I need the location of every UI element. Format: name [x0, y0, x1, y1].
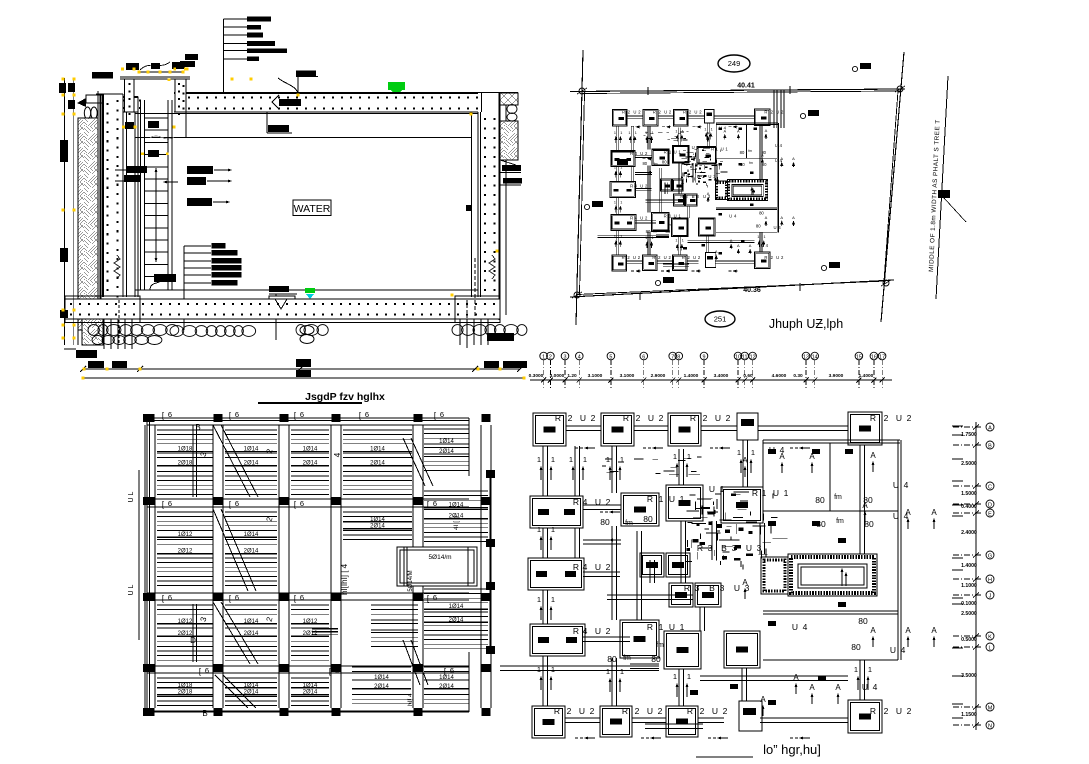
svg-text:6: 6 [433, 593, 437, 602]
svg-text:1Ø18: 1Ø18 [178, 446, 193, 452]
svg-text:2: 2 [606, 626, 611, 636]
ellipse 251 [705, 311, 735, 327]
svg-text:H: H [988, 578, 992, 584]
svg-text:1Ø14: 1Ø14 [303, 683, 318, 689]
grid bubble D [986, 500, 994, 508]
beam v e [678, 669, 680, 706]
svg-text:A: A [931, 626, 937, 635]
svg-text:K: K [988, 635, 992, 641]
svg-text:1: 1 [614, 235, 616, 239]
grid bubble 9 [700, 352, 708, 360]
grid bubble 5 [607, 352, 615, 360]
tank interior floor line [135, 289, 478, 291]
stones under slab [88, 325, 99, 336]
svg-text:U: U [664, 255, 667, 260]
beam m2 [656, 233, 669, 235]
right room walls [763, 439, 900, 441]
central dense cluster [602, 457, 788, 569]
footing dashed boundaries [118, 300, 120, 345]
svg-text:5: 5 [609, 355, 612, 361]
horizontal row gaps lines [147, 424, 469, 426]
entry path to street [773, 90, 775, 128]
svg-text:1: 1 [537, 525, 541, 534]
svg-text:2: 2 [549, 355, 552, 361]
street mid blob [938, 190, 950, 198]
svg-text:U: U [896, 706, 902, 716]
yellow grips at shaft [121, 68, 124, 71]
svg-text:U: U [648, 413, 654, 423]
svg-text:11: 11 [742, 355, 748, 361]
beam top c [688, 115, 704, 117]
column R3 row1 a [661, 179, 672, 191]
slab right border [489, 476, 491, 652]
svg-text:B: B [692, 194, 695, 199]
lid left part over wall [103, 97, 138, 112]
beam top d [714, 115, 755, 117]
svg-text:15: 15 [856, 355, 862, 361]
svg-text:1: 1 [682, 239, 684, 243]
svg-text:1: 1 [606, 667, 610, 676]
svg-text:R: R [687, 706, 693, 716]
corner ticks [577, 88, 587, 94]
boundary left edge [576, 50, 583, 325]
svg-text:R: R [870, 706, 876, 716]
svg-text:U: U [692, 145, 695, 150]
grid bubble M [986, 703, 994, 711]
svg-text:U: U [773, 488, 779, 498]
svg-text:3.1000: 3.1000 [588, 373, 603, 379]
svg-text:1: 1 [784, 488, 789, 498]
slab hatch panel [225, 430, 277, 494]
top middle column filled [737, 413, 758, 440]
svg-text:6: 6 [168, 410, 172, 419]
svg-text:7: 7 [671, 355, 674, 361]
beam v g [647, 166, 649, 213]
slab hatch panel [371, 605, 418, 646]
beam bottom c [687, 260, 699, 262]
svg-text:A: A [870, 626, 876, 635]
svg-text:80: 80 [651, 654, 661, 664]
beam v left2b [574, 528, 576, 558]
grid bubble 15 [855, 352, 863, 360]
beam above bottom-middle column [741, 668, 743, 701]
slab break V mark [275, 299, 287, 309]
svg-text:U: U [633, 109, 636, 114]
svg-text:1: 1 [711, 127, 713, 131]
rebar callout arrow right [187, 198, 212, 206]
svg-text:6: 6 [235, 593, 239, 602]
svg-text:1: 1 [551, 665, 555, 674]
svg-text:3: 3 [695, 583, 700, 593]
black squares at intersections [146, 414, 155, 422]
svg-text:0.3000: 0.3000 [529, 373, 544, 379]
svg-text:fm: fm [748, 149, 752, 153]
column R2 bottom-right [755, 252, 770, 268]
beam bottom a [565, 717, 600, 719]
svg-text:R: R [697, 543, 703, 553]
svg-text:3.4000: 3.4000 [714, 373, 729, 379]
svg-text:R: R [622, 706, 628, 716]
edge squares left [143, 414, 152, 422]
beam top b [658, 115, 673, 117]
svg-text:R: R [555, 413, 561, 423]
svg-text:2: 2 [591, 413, 596, 423]
svg-text:1.7500: 1.7500 [961, 432, 977, 438]
column R4 left wide-1 [611, 151, 635, 167]
svg-text:R: R [647, 622, 653, 632]
lid dots [179, 97, 496, 99]
svg-text:1: 1 [620, 235, 622, 239]
boundary bottom edge [570, 280, 894, 297]
svg-text:4: 4 [583, 562, 588, 572]
svg-text:80: 80 [666, 229, 671, 234]
svg-text:2: 2 [884, 706, 889, 716]
svg-text:1: 1 [720, 484, 725, 494]
beam v left3 [542, 590, 544, 624]
stair inner rect [732, 185, 763, 197]
svg-text:1: 1 [537, 455, 541, 464]
svg-text:U: U [580, 413, 586, 423]
svg-text:R: R [630, 151, 633, 156]
svg-text:1: 1 [537, 665, 541, 674]
svg-text:R: R [664, 150, 667, 155]
beam v a [611, 446, 613, 493]
svg-text:U: U [729, 213, 732, 218]
svg-text:1.4000: 1.4000 [859, 373, 874, 379]
boundary right edge [881, 52, 904, 322]
svg-text:A: A [905, 508, 911, 517]
site plan [570, 50, 966, 331]
rebar callout leftwall [126, 166, 147, 173]
svg-text:80: 80 [646, 229, 651, 234]
svg-text:U: U [694, 109, 697, 114]
svg-text:A: A [715, 249, 718, 254]
slab hatch panel [291, 678, 329, 706]
column R3 a [674, 194, 685, 206]
svg-text:1: 1 [659, 622, 664, 632]
svg-text:1: 1 [659, 494, 664, 504]
svg-text:2.5000: 2.5000 [961, 611, 977, 617]
beam v right [859, 445, 861, 554]
svg-text:U: U [746, 543, 752, 553]
column R4 left wide-3 [530, 624, 585, 656]
svg-text:U: U [664, 109, 667, 114]
svg-text:1.1500: 1.1500 [961, 712, 977, 718]
column B3 b [695, 583, 721, 607]
svg-text:2Ø18: 2Ø18 [178, 690, 193, 696]
beam lw2 [635, 188, 652, 190]
left dimension vertical lines [63, 78, 65, 345]
beam lw1 [635, 154, 652, 156]
svg-text:U: U [893, 480, 899, 490]
svg-text:U: U [775, 158, 778, 163]
column R2 bottom-2 [600, 706, 632, 737]
svg-text:A: A [723, 128, 726, 133]
svg-text:C: C [988, 485, 992, 491]
slab hatch panel [157, 678, 213, 706]
svg-text:U: U [893, 511, 899, 521]
svg-text:1: 1 [635, 131, 637, 135]
slab reinforcement plan [128, 410, 495, 718]
stair arrows [751, 191, 753, 196]
svg-text:B: B [697, 174, 700, 179]
bottom dim ticks [80, 366, 86, 372]
svg-text:U: U [640, 184, 643, 189]
left earth hatch strip [78, 118, 98, 330]
diagonal stair bands [213, 425, 250, 497]
svg-text:U: U [669, 494, 675, 504]
ladder center arrows [155, 172, 157, 205]
svg-text:17: 17 [879, 355, 885, 361]
column R2 top-3 [673, 109, 688, 125]
left retaining wall [103, 94, 123, 297]
svg-text:4: 4 [583, 626, 588, 636]
svg-text:fm: fm [836, 518, 844, 525]
grid bubble B [986, 441, 994, 449]
svg-text:A: A [742, 578, 748, 587]
svg-text:80: 80 [643, 514, 653, 524]
svg-text:2: 2 [907, 706, 912, 716]
svg-text:0.30: 0.30 [793, 373, 803, 379]
svg-text:2: 2 [606, 497, 611, 507]
svg-text:9: 9 [703, 355, 706, 361]
svg-text:1: 1 [675, 239, 677, 243]
svg-text:13: 13 [803, 355, 809, 361]
svg-text:2: 2 [590, 706, 595, 716]
svg-text:B: B [709, 583, 715, 593]
grid bubble 12 [749, 352, 757, 360]
svg-text:A: A [765, 128, 768, 133]
beam v d [647, 231, 649, 255]
svg-text:80: 80 [756, 223, 761, 228]
svg-text:U: U [579, 706, 585, 716]
beam mv1 [658, 168, 660, 212]
beam v a [647, 126, 649, 149]
svg-text:R: R [664, 213, 667, 218]
beam m5 [680, 521, 682, 583]
svg-text:0.60: 0.60 [743, 373, 753, 379]
svg-text:1Ø14: 1Ø14 [244, 446, 259, 452]
stair hatched border [788, 554, 877, 596]
svg-text:80: 80 [600, 517, 610, 527]
svg-text:16: 16 [871, 355, 877, 361]
slab center line dashed [474, 258, 476, 318]
beam m2 [630, 663, 659, 665]
svg-text:6: 6 [335, 666, 339, 675]
grid bubble 8 [675, 352, 683, 360]
bottom mid marks [683, 247, 687, 249]
svg-text:2: 2 [907, 413, 912, 423]
svg-text:3.9000: 3.9000 [829, 373, 844, 379]
svg-text:1: 1 [751, 448, 755, 457]
callout flag left of shaft [185, 54, 198, 60]
right footing outline [455, 296, 500, 323]
beam v d [611, 658, 613, 706]
svg-text:hΙ[ΙhΙ] [ 4: hΙ[ΙhΙ] [ 4 [340, 563, 349, 595]
svg-text:6: 6 [235, 410, 239, 419]
beam top a [627, 115, 643, 117]
svg-text:1Ø12: 1Ø12 [178, 619, 193, 625]
svg-text:1: 1 [737, 448, 741, 457]
grid bubble N [986, 721, 994, 729]
svg-text:B: B [202, 709, 207, 718]
svg-text:1: 1 [620, 200, 622, 204]
svg-text:2Ø14: 2Ø14 [449, 617, 464, 623]
svg-text:1.4000: 1.4000 [961, 563, 977, 569]
svg-text:80: 80 [816, 519, 826, 529]
beam v left2b [630, 167, 632, 182]
svg-text:1: 1 [614, 166, 616, 170]
svg-text:R: R [684, 583, 690, 593]
slab hatch panel [157, 605, 213, 660]
svg-text:80: 80 [858, 616, 868, 626]
svg-text:R: R [573, 626, 579, 636]
slab hatch panel [424, 429, 469, 470]
column B3 b [685, 194, 697, 206]
svg-text:U: U [715, 413, 721, 423]
svg-text:0.4000: 0.4000 [961, 504, 977, 510]
svg-text:1: 1 [868, 665, 872, 674]
beam v b [677, 127, 679, 145]
beam bottom d [760, 717, 848, 719]
svg-text:U: U [721, 147, 724, 152]
svg-text:6: 6 [450, 666, 454, 675]
svg-text:1: 1 [628, 131, 630, 135]
svg-text:R: R [652, 255, 655, 260]
svg-text:hΙ[ 4: hΙ[ 4 [407, 693, 414, 706]
beam top d [758, 425, 848, 427]
water tank section [59, 17, 527, 403]
dashed arrows [575, 447, 583, 449]
svg-text:A: A [742, 456, 748, 465]
beam m1 [500, 665, 659, 667]
left footing outline [65, 296, 140, 323]
svg-text:0.5000: 0.5000 [961, 637, 977, 643]
beam v left4 [616, 230, 618, 255]
svg-text:fm: fm [653, 229, 657, 233]
svg-text:2Ø14: 2Ø14 [303, 460, 318, 466]
svg-text:A: A [737, 128, 740, 133]
svg-text:1.20: 1.20 [567, 373, 577, 379]
vertical grid line right side [953, 422, 994, 730]
column R mid-5 [699, 218, 715, 236]
callout stack lower-middle [183, 246, 185, 330]
svg-text:A: A [761, 153, 764, 158]
svg-text:2: 2 [636, 413, 641, 423]
svg-text:WATER: WATER [294, 203, 331, 215]
svg-text:40.36: 40.36 [743, 287, 761, 294]
svg-text:R: R [554, 706, 560, 716]
grid bubble 13 [802, 352, 810, 360]
beam m4 [699, 607, 701, 631]
svg-text:R: R [573, 562, 579, 572]
svg-text:1: 1 [614, 200, 616, 204]
column R mid-4 [664, 631, 701, 669]
grid bubble K [986, 632, 994, 640]
bottom slab [65, 299, 500, 319]
bottom mid marks [690, 690, 698, 695]
svg-text:A: A [707, 130, 710, 135]
svg-text:A: A [792, 156, 795, 161]
top middle column filled [704, 109, 713, 122]
svg-text:1.1000: 1.1000 [961, 583, 977, 589]
svg-text:1Ø14: 1Ø14 [374, 675, 389, 681]
svg-text:A: A [905, 626, 911, 635]
svg-text:1: 1 [682, 129, 684, 133]
svg-text:10: 10 [735, 355, 741, 361]
svg-text:80: 80 [864, 519, 874, 529]
svg-text:80: 80 [759, 210, 764, 215]
svg-text:U: U [647, 706, 653, 716]
beam lw2 [583, 571, 620, 573]
beam v left2 [542, 528, 544, 558]
svg-text:4Ι [ 4: 4Ι [ 4 [453, 515, 460, 530]
svg-text:6: 6 [168, 499, 172, 508]
svg-text:14: 14 [812, 355, 818, 361]
svg-text:1: 1 [764, 235, 766, 239]
bottom slab lower line [65, 322, 500, 324]
svg-text:R: R [686, 174, 689, 179]
svg-text:A: A [809, 452, 815, 461]
svg-text:1Ø14: 1Ø14 [370, 517, 385, 523]
beam m3 [663, 263, 689, 265]
street center line [936, 76, 948, 299]
beam mh2 [607, 594, 693, 596]
svg-text:1: 1 [651, 236, 653, 240]
grid bubble 2 [547, 352, 555, 360]
footing bottom blob right [487, 333, 514, 341]
beam mv1 [636, 531, 638, 620]
spring symbol left [114, 255, 120, 279]
beam lw3 [635, 220, 656, 222]
slab hatch panel [424, 667, 469, 704]
room divider small [829, 443, 831, 511]
svg-text:12: 12 [750, 355, 756, 361]
svg-text:2: 2 [884, 413, 889, 423]
svg-text:1: 1 [569, 455, 573, 464]
svg-text:1: 1 [762, 488, 767, 498]
svg-text:4: 4 [578, 355, 581, 361]
svg-text:1: 1 [673, 672, 677, 681]
svg-text:A: A [870, 451, 876, 460]
svg-text:Јhuрh UƵ,lрh: Јhuрh UƵ,lрh [769, 317, 843, 331]
svg-text:1: 1 [673, 452, 677, 461]
svg-text:8: 8 [677, 355, 680, 361]
beam v right [759, 125, 761, 179]
svg-text:1Ø14: 1Ø14 [439, 675, 454, 681]
beam bm [700, 675, 848, 677]
svg-text:1.4000: 1.4000 [684, 373, 699, 379]
stair arrows [841, 572, 843, 586]
slab hatch panel [157, 430, 213, 494]
svg-text:U: U [633, 255, 636, 260]
svg-text:U: U [703, 194, 706, 199]
svg-text:R: R [764, 109, 767, 114]
shaft side verticals below lid [137, 109, 139, 297]
svg-text:1: 1 [704, 127, 706, 131]
stone second row left [92, 336, 104, 345]
left wall dots [107, 103, 109, 291]
beam m4 [687, 206, 689, 218]
room divider small [746, 124, 748, 158]
svg-text:6: 6 [433, 499, 437, 508]
svg-text:A: A [749, 243, 752, 248]
manhole shaft left wall [125, 79, 135, 112]
svg-text:2: 2 [567, 706, 572, 716]
site small ticks [647, 87, 649, 95]
svg-text:U: U [776, 255, 779, 260]
svg-text:3: 3 [757, 543, 762, 553]
